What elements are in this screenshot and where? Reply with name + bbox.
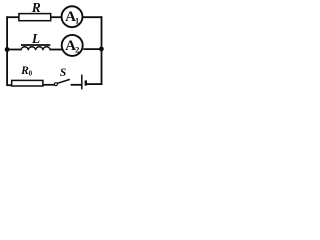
- svg-text:L: L: [31, 31, 40, 46]
- svg-text:2: 2: [75, 44, 79, 54]
- svg-text:0: 0: [29, 69, 33, 77]
- svg-text:R: R: [31, 0, 41, 15]
- svg-text:1: 1: [75, 17, 79, 26]
- svg-text:S: S: [60, 67, 66, 79]
